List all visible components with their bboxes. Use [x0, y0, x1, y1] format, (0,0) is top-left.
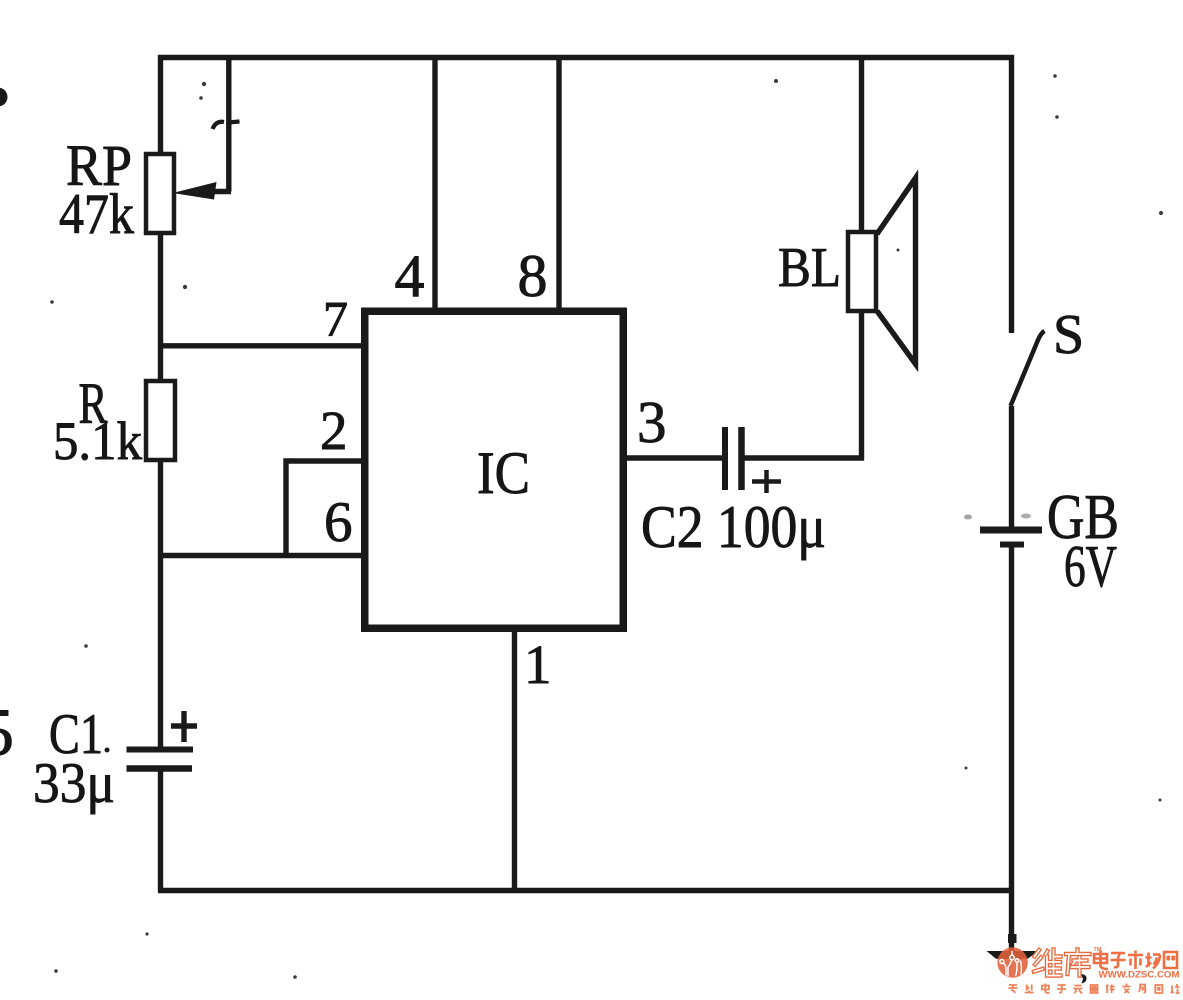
wire pin2-pin6 vertical connector [283, 459, 288, 557]
watermark text 电子市场网 [1094, 951, 1177, 970]
watermark logo circle [997, 947, 1027, 977]
svg-text:6V: 6V [1064, 533, 1117, 599]
wire pin 8 vertical [556, 58, 561, 309]
switch S blade [1011, 331, 1045, 406]
svg-text:7: 7 [323, 291, 348, 347]
svg-text:4: 4 [395, 243, 425, 309]
watermark logo circuit traces [1000, 951, 1022, 977]
black comma mark near watermark [1081, 974, 1087, 984]
svg-text:47k: 47k [59, 183, 134, 246]
capacitor C1 top plate [127, 747, 194, 753]
wire pin 4 vertical [432, 58, 437, 309]
capacitor C1 bottom plate [127, 765, 193, 772]
wire left rail (C1 to bottom rail) [158, 769, 163, 892]
C2 plus sign [752, 470, 781, 493]
capacitor C2 right plate [738, 427, 745, 490]
svg-text:3: 3 [637, 389, 667, 455]
wire left rail upper (top rail to RP) [158, 55, 163, 153]
battery GB short plate [1000, 542, 1024, 548]
partial glyph blob at top left edge [0, 88, 8, 107]
C1 plus sign [171, 711, 197, 742]
ground wire blob [1008, 934, 1017, 943]
svg-text:C2 100μ: C2 100μ [641, 494, 826, 560]
svg-text:1: 1 [524, 634, 552, 695]
svg-text:2: 2 [320, 400, 348, 461]
svg-text:WWW.DZSC.COM: WWW.DZSC.COM [1099, 970, 1180, 981]
potentiometer RP body [146, 154, 174, 233]
capacitor C2 left plate [722, 427, 728, 490]
speaker BL body [848, 232, 876, 311]
battery GB long plate [980, 527, 1042, 534]
svg-text:5: 5 [0, 694, 14, 770]
svg-text:IC: IC [477, 440, 530, 506]
battery noise speck left [964, 515, 972, 520]
watermark slogan row [1009, 984, 1180, 994]
svg-text:BL: BL [778, 237, 841, 299]
wire pin 3 horizontal [626, 455, 723, 460]
svg-text:5.1k: 5.1k [53, 411, 142, 471]
wire BL vertical upper [859, 58, 864, 233]
svg-text:8: 8 [518, 243, 548, 309]
resistor R body [146, 381, 175, 460]
wire pin 1 vertical [512, 630, 517, 892]
RP wiper tick mark [213, 122, 240, 130]
ground bar [987, 951, 1039, 959]
wire right rail lower (battery to ground) [1009, 545, 1014, 955]
svg-text:6: 6 [324, 491, 353, 554]
RP wiper arrowhead [173, 182, 217, 200]
wire left rail (R to C1) [158, 461, 163, 749]
wire BL vertical lower [859, 311, 864, 461]
C1 label period [105, 748, 110, 753]
wire pin 2 horizontal [284, 458, 363, 463]
RP wiper vertical wire [226, 55, 231, 192]
wire bottom rail [158, 888, 1013, 893]
svg-text:33μ: 33μ [33, 752, 115, 815]
svg-text:S: S [1053, 304, 1084, 366]
speaker BL horn [877, 178, 916, 364]
wire pin 7 horizontal [158, 343, 362, 348]
wire right rail (switch to battery) [1009, 406, 1014, 529]
wire C2 to BL branch [744, 455, 864, 460]
wire top rail [158, 55, 1014, 60]
watermark brand name 维库 (outlined) [1034, 950, 1090, 976]
wire pin 6 horizontal [158, 553, 362, 558]
battery noise speck right [1021, 514, 1031, 519]
op-amp IC box U1 [365, 311, 624, 628]
RP wiper arrow shaft [206, 189, 231, 194]
wire left rail (RP to R) [158, 234, 163, 380]
wire right rail upper (top rail to switch) [1009, 55, 1014, 333]
